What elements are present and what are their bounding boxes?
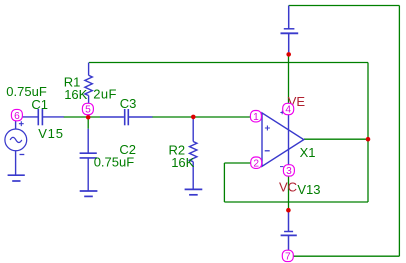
svg-text:X1: X1 [300, 145, 316, 160]
svg-text:0.75uF: 0.75uF [94, 155, 135, 170]
wire top supply [289, 5, 400, 7]
battery bottom V13 [281, 212, 297, 251]
wire node4 VE vertical [288, 54, 290, 103]
voltage source V15 [5, 117, 27, 175]
ground below V15 [8, 175, 25, 181]
junction dot R2 top [191, 115, 196, 120]
capacitor C1 [16, 109, 64, 125]
svg-text:2: 2 [253, 158, 259, 169]
svg-text:1: 1 [253, 112, 259, 123]
wire to node 2 [224, 162, 251, 164]
wire feedback vertical x=224.4 [223, 163, 225, 202]
svg-text:4: 4 [285, 105, 291, 116]
ground below R2 [185, 189, 203, 194]
pin4 plus tick [280, 111, 284, 115]
resistor R1 [85, 63, 92, 104]
resistor R2 [190, 117, 197, 189]
ground below C2 [80, 191, 98, 196]
wire op-amp output [304, 138, 368, 140]
junction dot node5 [86, 115, 91, 120]
svg-text:16K: 16K [64, 87, 87, 102]
wire main signal right green segment [152, 116, 251, 118]
V15 plus sign [19, 121, 24, 126]
pin3 minus tick [280, 166, 283, 168]
pin stub node1 [261, 115, 263, 117]
battery top (VE supply) [281, 6, 299, 53]
V15 minus sign [20, 154, 25, 156]
svg-text:2uF: 2uF [93, 87, 117, 102]
node 2 bubble [251, 157, 262, 169]
wire bottom feedback [224, 201, 368, 203]
wire right feedback vertical [367, 63, 369, 203]
node 5 bubble [82, 103, 93, 115]
node 1 bubble [250, 111, 261, 123]
node 6 bubble [11, 109, 22, 121]
junction dot VC battery [286, 208, 291, 213]
op-amp plus input mark [265, 126, 270, 131]
svg-text:6: 6 [14, 111, 20, 122]
wire R1 top feedback [89, 62, 368, 64]
svg-text:V15: V15 [38, 126, 64, 141]
node 7 bubble [282, 250, 293, 262]
capacitor C2 [80, 129, 97, 191]
junction dot output [366, 137, 371, 142]
op-amp minus input mark [265, 150, 270, 152]
svg-text:5: 5 [85, 105, 91, 116]
svg-text:VC: VC [279, 179, 297, 194]
svg-text:C3: C3 [120, 96, 137, 111]
op-amp supply vertical line [288, 111, 290, 168]
wire right outer vertical [398, 6, 400, 257]
wire bottom supply [294, 255, 400, 257]
wire node5 to C2 green part [87, 117, 89, 129]
pin stub node2 [261, 162, 262, 164]
svg-text:0.75uF: 0.75uF [6, 84, 47, 99]
node 3 bubble [283, 165, 294, 177]
wire node3 VC vertical [288, 176, 290, 210]
wire main signal left green segment [64, 116, 101, 118]
capacitor C3 [100, 109, 152, 125]
svg-text:C1: C1 [31, 97, 48, 112]
svg-text:3: 3 [286, 166, 292, 177]
svg-text:V13: V13 [297, 182, 320, 197]
svg-text:7: 7 [285, 252, 291, 263]
op-amp X1 [261, 111, 304, 168]
node 4 bubble [283, 103, 294, 115]
svg-text:16K: 16K [171, 155, 194, 170]
junction dot VE battery [286, 52, 291, 57]
